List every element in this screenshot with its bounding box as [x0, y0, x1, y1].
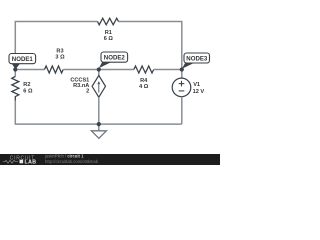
- node NODE2 flag: [99, 52, 128, 68]
- svg-text:LAB: LAB: [25, 159, 37, 165]
- resistor R1: [98, 18, 119, 25]
- logo CircuitLab: [3, 156, 36, 166]
- watermark bar: [0, 154, 220, 165]
- CCCS1 diamond: [92, 76, 105, 98]
- svg-text:NODE1: NODE1: [12, 56, 34, 63]
- resistor R3: [45, 66, 64, 73]
- svg-text:6 Ω: 6 Ω: [104, 36, 114, 42]
- node junction NODE2: [97, 67, 101, 71]
- svg-text:NODE2: NODE2: [104, 54, 126, 61]
- wire: V1 to bottom wire: [181, 97, 183, 124]
- node junction ground: [97, 122, 101, 126]
- svg-text:justinPilch / circuit 1: justinPilch / circuit 1: [44, 154, 84, 159]
- wire: CCCS1 to bottom wire: [98, 97, 100, 124]
- node NODE3 flag: [182, 53, 210, 69]
- svg-text:R2: R2: [23, 82, 30, 88]
- svg-text:V1: V1: [193, 82, 200, 88]
- wire: R2 to bottom wire: [15, 101, 182, 125]
- node junction NODE3: [180, 67, 184, 71]
- wire: NODE1 down to R2: [14, 70, 16, 77]
- wire: top left to R1: [15, 22, 97, 70]
- node junction NODE1: [13, 67, 17, 71]
- CCCS1 arrow: [98, 83, 100, 92]
- ground: [98, 124, 100, 131]
- resistor R4: [134, 66, 154, 73]
- svg-text:NODE3: NODE3: [186, 55, 208, 62]
- svg-text:3 Ω: 3 Ω: [55, 54, 65, 60]
- svg-text:R4: R4: [140, 78, 148, 84]
- voltage source V1: [172, 78, 191, 97]
- svg-text:4 Ω: 4 Ω: [139, 84, 149, 90]
- wire: middle row NODE1 to R3: [15, 69, 44, 71]
- wire: R4 to NODE3: [154, 69, 182, 71]
- wire: NODE2 to R4: [99, 69, 134, 71]
- wire: R1 right to top-right corner down: [119, 22, 182, 70]
- svg-text:http://circuitlab.com/c6tkmab: http://circuitlab.com/c6tkmab: [45, 159, 99, 164]
- node NODE1 flag: [9, 54, 36, 70]
- svg-text:12 V: 12 V: [193, 89, 205, 95]
- wire: R3 to NODE2: [63, 69, 99, 71]
- wire: NODE2 down to CCCS1: [98, 70, 100, 76]
- wire: NODE3 down to V1: [181, 70, 183, 79]
- resistor R2: [12, 77, 19, 101]
- svg-text:2: 2: [86, 89, 89, 95]
- svg-text:6 Ω: 6 Ω: [23, 89, 33, 95]
